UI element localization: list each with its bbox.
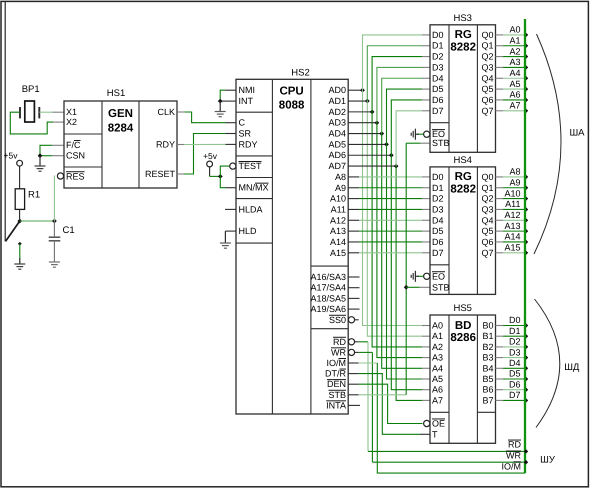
svg-text:AD7: AD7 [328,161,346,171]
wire B4 HS5 to data bus, net D4 [496,367,504,369]
wire AD0 riser to RG D0 [363,35,423,90]
wire Q0 HS4 to address bus, net A8 [496,176,504,178]
svg-text:Q5: Q5 [481,84,493,94]
svg-text:STB: STB [432,282,450,292]
svg-text:8282: 8282 [450,183,476,195]
svg-text:NMI: NMI [239,85,256,95]
wire AD5 riser to RG D5 [387,89,423,144]
svg-text:A8: A8 [335,172,346,182]
wire AD7 stub [348,165,396,167]
wire AD7 riser to BD A7 [396,166,422,400]
pin SS0 bubble and stub [348,317,354,323]
svg-text:A18/SA5: A18/SA5 [310,293,346,303]
wire AD1 stub [348,100,367,102]
wire R1 node to C1 node [20,220,55,222]
wire AD6 stub [348,154,391,156]
svg-text:X1: X1 [66,107,77,117]
brace address bus [534,34,561,254]
wire AD2 riser to RG D2 [372,57,422,112]
wire Q5 HS4 to address bus, net A13 [496,230,504,232]
svg-text:A9: A9 [509,177,520,187]
svg-text:STB: STB [432,138,450,148]
svg-text:D3: D3 [432,204,444,214]
svg-text:Q3: Q3 [481,204,493,214]
svg-text:RES: RES [66,171,85,181]
svg-text:D2: D2 [432,194,444,204]
svg-text:RDY: RDY [156,140,175,150]
svg-text:8088: 8088 [279,100,305,112]
wire CSN to ground node [52,155,64,157]
node AD5 junction [384,142,389,147]
svg-text:D0: D0 [432,30,444,40]
wire Q4 HS4 to address bus, net A12 [496,219,504,221]
wire C1 bottom plate to ground [53,241,55,262]
ground (C1) [49,261,60,263]
svg-text:F/C: F/C [66,140,81,150]
wire AD5 stub [348,143,386,145]
svg-text:A1: A1 [509,35,520,45]
wire NMI to ground [225,89,236,91]
wire BP1 left plate loop to X2 [10,112,53,134]
wire DT/R to T [348,373,358,375]
wire node to C1 top plate [53,221,55,237]
svg-text:D7: D7 [509,390,521,400]
svg-text:WR: WR [506,451,521,461]
svg-text:AD4: AD4 [328,129,346,139]
svg-text:OE: OE [432,419,445,429]
svg-text:AD1: AD1 [328,96,346,106]
pin HLDA stub [225,208,236,210]
wire RDY to RDY [177,144,184,146]
svg-text:A5: A5 [509,79,520,89]
svg-text:T: T [432,429,438,439]
ground (NMI INT) [219,101,221,111]
svg-text:A19/SA6: A19/SA6 [310,304,346,314]
svg-text:GEN: GEN [108,108,133,120]
wire CLK to C [177,111,184,113]
svg-text:+5v: +5v [203,151,218,161]
svg-text:D7: D7 [432,106,444,116]
svg-text:A14: A14 [330,237,346,247]
svg-text:8284: 8284 [108,123,134,135]
node STB HS4 junction [404,285,409,290]
wire AD0 stub [348,89,362,91]
svg-text:AD6: AD6 [328,150,346,160]
wire Q3 HS3 to address bus, net A3 [496,66,504,68]
wire A11 to RG HS4 D3 [348,208,359,210]
node C1/RES junction [52,219,57,224]
wire R1 to node [19,209,21,221]
svg-text:Q4: Q4 [481,215,493,225]
svg-text:Q5: Q5 [481,226,493,236]
svg-text:AD3: AD3 [328,118,346,128]
svg-text:Q7: Q7 [481,248,493,258]
svg-text:D1: D1 [509,326,521,336]
wire DEN to OE bubble [348,383,358,385]
svg-text:B1: B1 [482,331,493,341]
svg-text:D1: D1 [432,183,444,193]
svg-text:A11: A11 [505,199,520,209]
svg-text:HS1: HS1 [107,88,125,99]
svg-text:D0: D0 [509,315,521,325]
wire Q6 HS3 to address bus, net A6 [496,99,504,101]
svg-text:HS3: HS3 [453,13,471,24]
svg-text:HS5: HS5 [453,303,471,314]
svg-text:A1: A1 [432,331,443,341]
svg-text:+5v: +5v [4,151,19,161]
wire A15 to RG HS4 D7 [348,252,359,254]
svg-text:A17/SA4: A17/SA4 [310,283,346,293]
node AD3 junction [375,120,380,125]
svg-text:INT: INT [239,96,254,106]
wire RES to reset node [53,176,56,221]
ground (switch) [19,258,21,264]
svg-text:A14: A14 [504,232,520,242]
svg-text:A7: A7 [509,100,520,110]
svg-text:A2: A2 [509,46,520,56]
svg-text:Q0: Q0 [481,172,493,182]
wire AD3 riser to BD A3 [377,123,422,358]
svg-text:B3: B3 [482,353,493,363]
resistor R1 [15,189,24,210]
svg-text:A13: A13 [504,221,520,231]
svg-text:IO/M: IO/M [501,461,521,471]
svg-text:A8: A8 [509,167,520,177]
wire Q1 HS3 to address bus, net A1 [496,45,504,47]
wire AD4 riser to BD A4 [382,134,422,369]
svg-text:C1: C1 [63,225,75,236]
svg-text:D2: D2 [509,337,521,347]
svg-text:WR: WR [331,347,346,357]
svg-text:8282: 8282 [450,41,476,53]
svg-text:D6: D6 [432,237,444,247]
svg-text:Q6: Q6 [481,95,493,105]
wire +5v to R1 [19,166,21,189]
wire AD4 stub [348,133,382,135]
svg-text:RESET: RESET [145,169,176,179]
svg-text:RG: RG [455,29,472,41]
svg-text:A16/SA3: A16/SA3 [310,272,346,282]
svg-text:D4: D4 [509,358,521,368]
svg-text:A12: A12 [330,215,346,225]
svg-text:B5: B5 [482,374,493,384]
svg-text:R1: R1 [28,190,40,201]
svg-text:B4: B4 [482,363,493,373]
svg-text:8286: 8286 [450,332,476,344]
svg-text:DEN: DEN [327,379,346,389]
wire A13 to RG HS4 D5 [348,230,359,232]
svg-text:Q1: Q1 [481,41,493,51]
wire A12 to RG HS4 D4 [348,219,359,221]
wire AD0 riser to BD A0 [363,90,423,325]
wire B5 HS5 to data bus, net D5 [496,378,504,380]
wire STB to RG strobes [348,394,358,396]
wire Q5 HS3 to address bus, net A5 [496,88,504,90]
wire B2 HS5 to data bus, net D2 [496,346,504,348]
pin INTA stub [348,404,360,406]
wire AD2 riser to BD A2 [372,112,422,347]
svg-text:TEST: TEST [239,161,263,171]
svg-text:HLD: HLD [239,226,258,236]
svg-text:B6: B6 [482,385,493,395]
node R1/C1 junction [17,219,22,224]
svg-text:Q6: Q6 [481,237,493,247]
wire B7 HS5 to data bus, net D7 [496,399,504,401]
wire Q2 HS4 to address bus, net A10 [496,198,504,200]
svg-text:D3: D3 [509,347,521,357]
wire WR to control bus [348,349,354,355]
wire B1 HS5 to data bus, net D1 [496,335,504,337]
svg-text:SR: SR [239,129,252,139]
wire AD5 riser to BD A5 [387,144,423,379]
HS5 OE bubble [424,420,430,426]
wire AD1 riser to BD A1 [367,101,422,336]
node AD0 junction [360,88,365,93]
svg-text:A2: A2 [432,342,443,352]
svg-text:HS4: HS4 [453,155,471,166]
svg-text:INTA: INTA [326,400,346,410]
wire A14 to RG HS4 D6 [348,241,359,243]
svg-text:D4: D4 [432,215,444,225]
svg-text:A4: A4 [509,68,520,78]
wire switch contact to ground [19,244,21,264]
node AD4 junction [379,131,384,136]
svg-text:CSN: CSN [66,151,85,161]
svg-text:RD: RD [508,440,521,450]
svg-text:A3: A3 [509,57,520,67]
wire AD3 stub [348,122,377,124]
svg-text:D3: D3 [432,62,444,72]
svg-text:B7: B7 [482,395,493,405]
wire Q3 HS4 to address bus, net A11 [496,208,504,210]
wire A16/SA3 stub [348,276,359,278]
svg-text:B0: B0 [482,321,493,331]
svg-text:CPU: CPU [279,86,303,98]
svg-text:A13: A13 [330,226,346,236]
svg-text:AD5: AD5 [328,139,346,149]
svg-text:RDY: RDY [239,139,258,149]
svg-text:X2: X2 [66,117,77,127]
svg-text:CLK: CLK [157,107,175,117]
svg-text:A0: A0 [509,25,520,35]
node AD6 junction [389,153,394,158]
svg-text:A6: A6 [432,385,443,395]
wire A17/SA4 stub [348,287,359,289]
svg-text:D2: D2 [432,52,444,62]
svg-text:Q3: Q3 [481,62,493,72]
wire A18/SA5 stub [348,297,359,299]
wire AD6 riser to BD A6 [391,155,422,389]
wire RESET to SR [177,173,184,175]
svg-text:MN/MX: MN/MX [239,183,269,193]
wire B3 HS5 to data bus, net D3 [496,357,504,359]
svg-text:Q0: Q0 [481,30,493,40]
svg-text:A10: A10 [330,194,346,204]
svg-text:ШД: ШД [564,362,580,373]
wire HLD to ground [225,230,236,232]
node NMI/INT junction [218,99,223,104]
svg-text:A0: A0 [432,321,443,331]
svg-text:A4: A4 [432,363,443,373]
wire AD7 riser to RG D7 [396,111,422,166]
svg-text:C: C [239,118,246,128]
svg-text:A15: A15 [504,243,520,253]
wire AD6 riser to RG D6 [391,100,422,155]
svg-text:A10: A10 [504,188,520,198]
wire off-page reset line (left vertical) [4,2,6,242]
wire Q4 HS3 to address bus, net A4 [496,77,504,79]
wire B6 HS5 to data bus, net D6 [496,389,504,391]
wire B0 HS5 to data bus, net D0 [496,325,504,327]
wire AD4 riser to RG D4 [382,78,422,133]
svg-text:ША: ША [569,127,585,138]
brace data bus [535,299,560,428]
node TEST/MNMX junction [218,174,223,179]
svg-text:Q7: Q7 [481,106,493,116]
svg-text:BD: BD [455,320,472,332]
svg-text:D5: D5 [432,84,444,94]
wire AD1 riser to RG D1 [367,46,422,101]
node AD7 junction [394,164,399,169]
wire +5v to TEST and MN/MX [209,167,211,176]
wire Q7 HS3 to address bus, net A7 [496,110,504,112]
svg-text:D5: D5 [509,369,521,379]
capacitor C1 [49,236,61,238]
node RD bus junction [524,449,528,453]
wire A19/SA6 stub [348,308,359,310]
svg-text:D0: D0 [432,172,444,182]
svg-text:D6: D6 [509,379,521,389]
svg-text:AD0: AD0 [328,85,346,95]
wire A8 to RG HS4 D0 [348,176,359,178]
svg-text:A12: A12 [504,210,520,220]
svg-text:D7: D7 [432,248,444,258]
svg-text:Q4: Q4 [481,73,493,83]
svg-text:D1: D1 [432,41,444,51]
node AD1 junction [365,99,370,104]
wire Q0 HS3 to address bus, net A0 [496,34,504,36]
wire BP1 right plate to X1 [39,111,52,113]
wire Q7 HS4 to address bus, net A15 [496,252,504,254]
svg-text:Q2: Q2 [481,52,493,62]
switch fixed contact [18,242,22,246]
svg-text:A3: A3 [432,353,443,363]
wire to TEST bubble [220,166,229,176]
svg-text:A7: A7 [432,395,443,405]
svg-text:A11: A11 [331,204,346,214]
svg-text:STB: STB [328,390,346,400]
svg-text:A6: A6 [509,90,520,100]
wire EO ground of HS4 [418,275,424,277]
svg-text:AD2: AD2 [328,107,346,117]
wire Q6 HS4 to address bus, net A14 [496,241,504,243]
wire F/C to ground node [52,144,64,146]
wire Q1 HS4 to address bus, net A9 [496,187,504,189]
wire A10 to RG HS4 D2 [348,198,359,200]
svg-text:D5: D5 [432,226,444,236]
ground (F/C CSN) [39,156,41,166]
svg-text:A9: A9 [335,183,346,193]
wire A9 to RG HS4 D1 [348,187,359,189]
wire INT to ground [220,100,236,102]
svg-text:HS2: HS2 [291,67,309,78]
svg-text:SS0: SS0 [329,315,346,325]
bus vertical line [524,19,526,473]
svg-text:IO/M: IO/M [326,358,346,368]
svg-text:A15: A15 [330,248,346,258]
wire AD2 stub [348,111,372,113]
svg-text:RG: RG [455,171,472,183]
node AD2 junction [370,109,375,114]
svg-text:Q1: Q1 [481,183,493,193]
ground (HLD) [220,242,231,244]
wire RD to control bus [348,339,354,345]
svg-text:Q2: Q2 [481,194,493,204]
wire to MN/MX pin [220,176,225,187]
wire AD3 riser to RG D3 [377,67,422,122]
node F/C-CSN ground junction [38,153,43,158]
svg-text:EO: EO [432,271,445,281]
switch SA1 blade [6,221,20,241]
node WR bus junction [524,460,528,464]
svg-text:HLDA: HLDA [239,204,263,214]
svg-text:A5: A5 [432,374,443,384]
wire IO/M to control bus [348,362,358,364]
svg-text:D4: D4 [432,73,444,83]
svg-text:DT/R: DT/R [325,369,347,379]
svg-text:B2: B2 [482,342,493,352]
svg-text:RD: RD [333,337,346,347]
svg-text:ШУ: ШУ [540,454,556,465]
svg-text:BP1: BP1 [22,84,40,95]
wire EO ground of HS3 [418,133,424,135]
wire Q2 HS3 to address bus, net A2 [496,56,504,58]
svg-text:D6: D6 [432,95,444,105]
